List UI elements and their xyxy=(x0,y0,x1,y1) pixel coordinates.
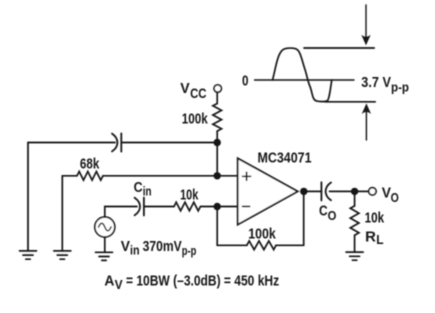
label 100k (R4) xyxy=(248,226,276,242)
label CO xyxy=(319,203,337,222)
wire left rail down to ground xyxy=(27,143,29,251)
wire rail to resistor R2 xyxy=(62,175,77,177)
node B junction (+ input) xyxy=(214,172,221,179)
wire CO to node E xyxy=(330,190,355,192)
svg-text:A: A xyxy=(104,274,114,290)
label Cin xyxy=(134,180,152,198)
wire RL down to ground xyxy=(354,235,356,252)
waveform 0 label xyxy=(242,74,249,90)
label 68k (R2) xyxy=(80,156,100,172)
capacitor Cin (curved plate left) xyxy=(135,198,144,216)
waveform up arrow xyxy=(362,103,371,140)
wire node E to VO terminal xyxy=(355,190,369,192)
wire feedback: node C down xyxy=(216,207,218,246)
label VCC xyxy=(180,81,206,101)
svg-text:R: R xyxy=(365,229,376,245)
svg-text:100k: 100k xyxy=(182,111,209,127)
svg-text:3.7 V: 3.7 V xyxy=(361,75,391,91)
node D junction (output) xyxy=(300,188,307,195)
wire R3 to node C xyxy=(201,206,218,208)
wire node C to op-amp - input xyxy=(217,206,238,208)
label MC34071 xyxy=(258,150,312,166)
waveform down arrow xyxy=(361,5,370,46)
svg-text:in: in xyxy=(130,243,140,257)
wire feedback bottom right segment xyxy=(276,244,304,246)
wire R2 to node B xyxy=(103,175,217,177)
node A junction xyxy=(214,139,221,146)
wire Cin to resistor R3 xyxy=(144,206,174,208)
capacitor C1 (bootstrap, curved plate left) xyxy=(112,133,121,151)
node C junction (- input) xyxy=(214,203,221,210)
wire node A left to capacitor C1 xyxy=(121,142,217,144)
label 3.7 Vp-p xyxy=(361,75,409,95)
svg-text:= 10BW (–3.0dB) = 450 kHz: = 10BW (–3.0dB) = 450 kHz xyxy=(126,274,279,290)
resistor R1 100k (VCC bias) xyxy=(213,104,222,132)
VO terminal xyxy=(369,188,376,195)
svg-text:C: C xyxy=(134,180,143,196)
svg-text:MC34071: MC34071 xyxy=(258,150,312,166)
waveform zero line xyxy=(255,79,355,81)
wire R1 to node A xyxy=(216,131,218,142)
ground (RL) xyxy=(346,252,363,260)
svg-text:100k: 100k xyxy=(248,226,276,242)
node E junction xyxy=(351,188,358,195)
label RL xyxy=(365,229,384,247)
svg-text:CC: CC xyxy=(190,86,207,101)
wire node E down to RL xyxy=(354,191,356,206)
wire capacitor C1 to left rail xyxy=(28,142,115,144)
svg-text:V: V xyxy=(121,239,131,255)
svg-text:p-p: p-p xyxy=(391,81,409,95)
label Vin 370mVp-p xyxy=(121,239,197,258)
ground (left rail) xyxy=(20,251,37,259)
svg-text:O: O xyxy=(391,191,399,205)
capacitor CO (curved plate right) xyxy=(321,182,331,200)
svg-text:V: V xyxy=(115,278,124,292)
label VO xyxy=(382,186,399,206)
wire node D to capacitor CO xyxy=(304,190,322,192)
wire VCC terminal to R1 xyxy=(216,92,218,103)
waveform trough level line xyxy=(325,101,375,103)
svg-text:in: in xyxy=(143,184,152,198)
label 10k (RL) xyxy=(365,210,385,226)
wire source down to ground xyxy=(104,237,106,252)
svg-text:10k: 10k xyxy=(180,188,199,204)
wire source up to Cin row xyxy=(105,207,137,218)
svg-text:68k: 68k xyxy=(80,156,100,172)
resistor RL 10k (load) xyxy=(350,206,359,235)
wire node A to node B xyxy=(216,143,218,176)
wire feedback up to node D xyxy=(303,191,305,245)
svg-text:10k: 10k xyxy=(365,210,385,226)
waveform peak level line xyxy=(304,47,374,49)
wire node B to op-amp + input xyxy=(217,175,238,177)
label 10k (R3) xyxy=(180,188,199,204)
resistor R2 68k xyxy=(77,172,103,181)
resistor R3 10k xyxy=(174,202,201,211)
waveform sine wave xyxy=(273,48,332,102)
svg-text:O: O xyxy=(328,209,337,223)
wire feedback bottom left segment xyxy=(217,244,247,246)
VCC terminal xyxy=(214,85,221,92)
source VIN (sine generator) xyxy=(95,217,115,237)
label 100k (R1) xyxy=(182,111,209,127)
ground (68k rail) xyxy=(54,251,71,259)
svg-text:L: L xyxy=(376,233,384,247)
svg-text:V: V xyxy=(180,81,190,97)
wire 68k rail down to ground xyxy=(61,176,63,251)
resistor R4 100k (feedback) xyxy=(247,241,276,250)
svg-text:370mV: 370mV xyxy=(143,239,182,255)
ground (source) xyxy=(96,252,113,260)
svg-text:0: 0 xyxy=(242,74,249,90)
label AV = 10BW (-3.0dB) = 450 kHz xyxy=(104,274,279,292)
svg-text:p-p: p-p xyxy=(182,244,197,258)
op-amp U1 MC34071 xyxy=(238,158,298,224)
